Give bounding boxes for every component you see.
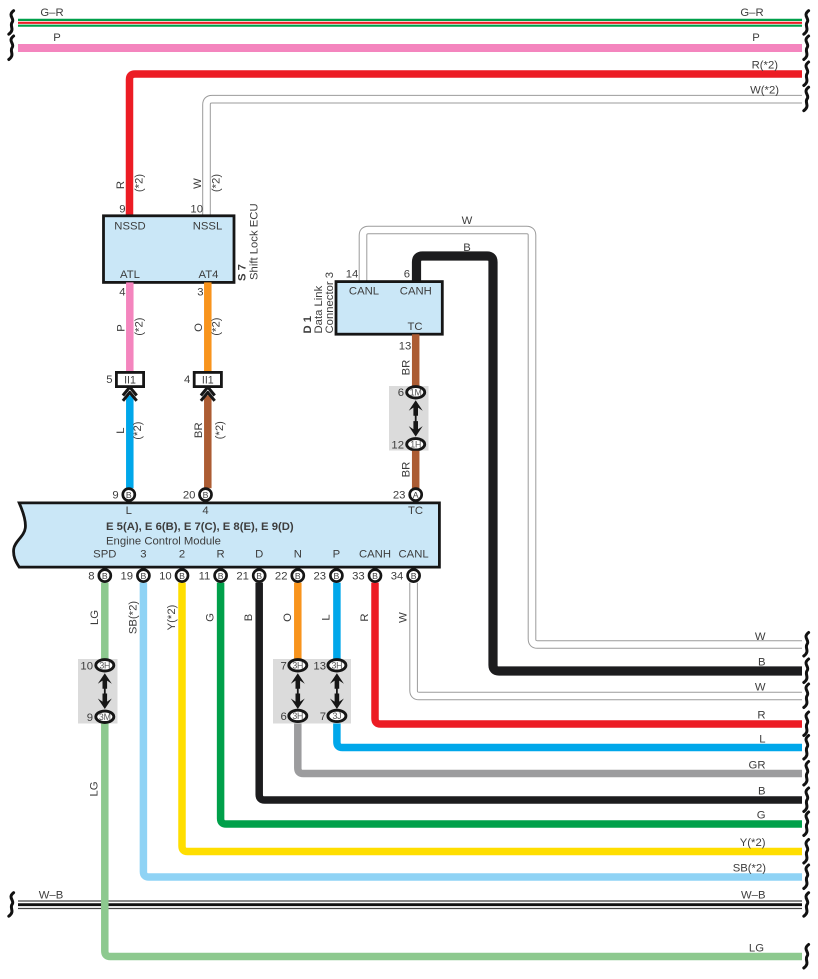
svg-text:Y(*2): Y(*2) [740,837,766,849]
svg-text:(*2): (*2) [210,174,222,192]
svg-text:B: B [243,614,255,622]
svg-text:10: 10 [190,204,203,216]
svg-text:G–R: G–R [740,7,763,19]
svg-text:10: 10 [80,660,93,672]
svg-text:5: 5 [106,374,112,386]
svg-text:CANL: CANL [349,286,379,298]
svg-text:10: 10 [159,571,172,583]
svg-text:B: B [218,571,224,581]
svg-text:4: 4 [202,505,208,517]
svg-text:O: O [282,613,294,622]
svg-text:L: L [126,505,132,517]
svg-text:CANH: CANH [359,549,391,561]
svg-text:3H: 3H [292,711,303,721]
svg-text:20: 20 [183,490,196,502]
svg-text:W: W [755,682,766,694]
svg-text:34: 34 [391,571,404,583]
svg-text:4: 4 [184,374,190,386]
svg-text:NSSL: NSSL [193,221,223,233]
svg-text:W–B: W–B [39,889,63,901]
svg-text:O: O [193,323,205,332]
svg-text:21: 21 [236,571,249,583]
svg-text:12: 12 [391,439,404,451]
svg-text:23: 23 [393,490,406,502]
svg-text:E 5(A), E 6(B), E 7(C), E 8(E): E 5(A), E 6(B), E 7(C), E 8(E), E 9(D) [106,521,294,533]
svg-text:D: D [255,549,263,561]
svg-text:6: 6 [404,269,410,281]
svg-text:LG: LG [749,942,764,954]
svg-text:2: 2 [179,549,185,561]
svg-text:W: W [192,178,204,189]
svg-text:33: 33 [352,571,365,583]
svg-text:B: B [758,786,766,798]
svg-text:9: 9 [87,712,93,724]
svg-text:ATL: ATL [120,269,140,281]
svg-text:R: R [359,613,371,621]
svg-text:BR: BR [401,462,413,478]
svg-text:R(*2): R(*2) [752,60,779,72]
svg-text:7: 7 [320,711,326,723]
svg-text:TC: TC [407,321,422,333]
svg-text:P: P [752,32,760,44]
svg-text:P: P [53,32,61,44]
svg-text:3J: 3J [332,711,341,721]
svg-text:(*2): (*2) [133,317,145,335]
svg-text:Engine Control Module: Engine Control Module [106,536,221,548]
svg-text:B: B [295,571,301,581]
svg-text:6: 6 [281,711,287,723]
svg-text:W: W [755,631,766,643]
svg-text:L: L [759,734,765,746]
svg-text:TC: TC [408,505,423,517]
svg-text:LG: LG [89,610,101,625]
svg-text:CANH: CANH [400,286,432,298]
svg-text:13: 13 [399,340,412,352]
svg-text:SB(*2): SB(*2) [733,863,767,875]
svg-text:3H: 3H [99,660,110,670]
svg-text:(*2): (*2) [214,421,226,439]
svg-text:W(*2): W(*2) [750,85,779,97]
svg-text:N: N [294,549,302,561]
svg-text:B: B [126,490,132,500]
svg-text:22: 22 [275,571,288,583]
svg-text:3H: 3H [292,660,303,670]
svg-text:SB(*2): SB(*2) [127,601,139,635]
svg-text:S 7: S 7 [237,264,249,281]
svg-text:19: 19 [121,571,134,583]
svg-text:AT4: AT4 [199,269,219,281]
svg-text:Y(*2): Y(*2) [166,604,178,630]
svg-text:6: 6 [398,387,404,399]
svg-text:R: R [115,181,127,189]
svg-text:LG: LG [88,781,100,796]
svg-text:Connector 3: Connector 3 [324,272,336,334]
svg-text:(*2): (*2) [133,174,145,192]
svg-text:B: B [463,242,471,254]
svg-text:A: A [413,490,419,500]
svg-text:SPD: SPD [93,549,116,561]
svg-text:9: 9 [112,490,118,502]
svg-text:4: 4 [119,287,125,299]
svg-text:(*2): (*2) [132,421,144,439]
svg-text:P: P [115,324,127,332]
svg-text:B: B [372,571,378,581]
svg-text:14: 14 [346,269,359,281]
svg-text:13: 13 [313,660,326,672]
svg-text:NSSD: NSSD [114,221,145,233]
svg-text:G–R: G–R [40,7,63,19]
svg-text:R: R [217,549,225,561]
svg-text:B: B [334,571,340,581]
svg-text:8: 8 [88,571,94,583]
svg-text:B: B [411,571,417,581]
svg-text:W–B: W–B [741,890,765,902]
svg-text:G: G [205,613,217,622]
svg-text:B: B [203,490,209,500]
svg-text:(*2): (*2) [211,317,223,335]
svg-text:7: 7 [281,660,287,672]
svg-text:W: W [462,215,473,227]
svg-text:B: B [102,571,108,581]
svg-text:1H: 1H [410,439,421,449]
svg-text:9: 9 [119,204,125,216]
svg-text:P: P [333,549,341,561]
svg-text:II1: II1 [202,375,214,387]
svg-text:CANL: CANL [399,549,429,561]
svg-text:1M: 1M [410,387,422,397]
svg-text:3: 3 [197,287,203,299]
svg-text:G: G [757,810,766,822]
svg-text:Shift Lock ECU: Shift Lock ECU [249,203,261,280]
svg-text:B: B [141,571,147,581]
svg-text:L: L [115,427,127,433]
svg-text:B: B [256,571,262,581]
svg-text:3H: 3H [331,660,342,670]
svg-text:3M: 3M [99,712,111,722]
svg-text:3: 3 [140,549,146,561]
svg-text:II1: II1 [124,375,136,387]
svg-text:BR: BR [193,422,205,438]
svg-text:23: 23 [314,571,327,583]
svg-text:11: 11 [199,571,211,583]
svg-text:BR: BR [401,360,413,376]
svg-text:L: L [320,614,332,620]
svg-text:B: B [179,571,185,581]
svg-text:GR: GR [749,760,766,772]
svg-text:R: R [757,710,765,722]
svg-text:W: W [398,612,410,623]
svg-text:B: B [758,657,766,669]
